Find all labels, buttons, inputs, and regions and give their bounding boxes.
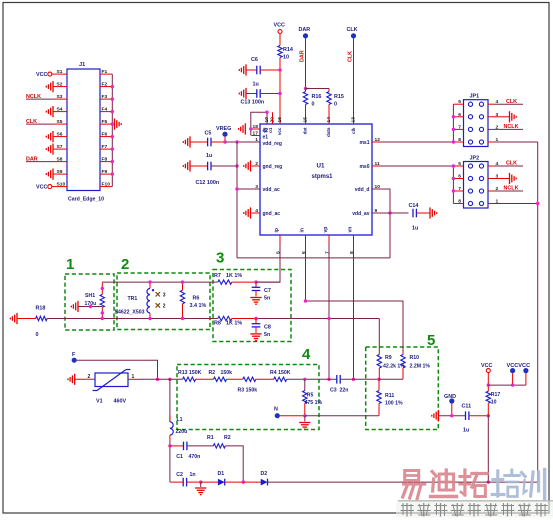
svg-text:1K 1%: 1K 1% <box>226 321 242 327</box>
J1 pin S8 stub <box>53 156 67 162</box>
J1 pin S1 stub <box>53 69 67 75</box>
svg-text:R6: R6 <box>193 296 200 302</box>
junction <box>352 378 355 381</box>
ground at S4 <box>46 106 53 117</box>
diode D2 <box>261 471 268 486</box>
svg-text:F3: F3 <box>102 94 108 100</box>
junction <box>327 317 330 381</box>
junction <box>278 68 281 71</box>
svg-text:6: 6 <box>458 112 461 118</box>
U1 pin 3 <box>252 184 261 190</box>
svg-text:vdd_ac: vdd_ac <box>263 187 280 193</box>
svg-text:470n: 470n <box>189 454 201 460</box>
svg-text:vcc: vcc <box>277 127 282 135</box>
svg-text:3: 3 <box>163 292 166 298</box>
svg-text:R16: R16 <box>312 94 322 100</box>
svg-text:0: 0 <box>312 102 315 108</box>
capacitor C5 <box>190 131 226 160</box>
U1 pin 11 <box>359 161 380 170</box>
svg-text:S4: S4 <box>57 106 63 112</box>
svg-text:R2: R2 <box>209 370 216 376</box>
svg-text:14: 14 <box>326 117 332 123</box>
svg-text:R13 150K: R13 150K <box>178 370 202 376</box>
svg-text:100 1%: 100 1% <box>385 401 403 407</box>
svg-text:10: 10 <box>283 55 289 61</box>
svg-text:6: 6 <box>301 251 307 254</box>
wire vdd_av <box>372 212 409 214</box>
svg-text:2: 2 <box>121 256 129 273</box>
wire vdd_d <box>372 189 390 258</box>
resistor R2 <box>209 370 233 382</box>
dashed box 2 <box>117 256 210 330</box>
junction <box>536 202 539 205</box>
wire pins 19-20 to 18 <box>251 112 273 135</box>
ground at C2 <box>195 482 206 495</box>
svg-text:S7: S7 <box>57 144 63 150</box>
wire divider row <box>158 378 183 380</box>
svg-text:15: 15 <box>303 117 309 123</box>
resistor R13 <box>178 370 202 382</box>
svg-text:in: in <box>300 228 306 232</box>
ground at JP2 pin3 <box>494 173 516 184</box>
junction <box>156 378 172 381</box>
junction <box>111 110 114 113</box>
junction <box>111 147 114 150</box>
svg-text:ms0: ms0 <box>359 164 369 170</box>
svg-text:NCLK: NCLK <box>26 94 41 100</box>
svg-text:0: 0 <box>334 102 337 108</box>
svg-text:F1: F1 <box>102 69 108 75</box>
svg-text:V1: V1 <box>96 399 103 405</box>
power flag VCC right <box>481 363 492 385</box>
junction <box>181 280 184 320</box>
U1 pin 20 <box>270 115 276 124</box>
JP2 pin circles row 3 <box>468 189 483 193</box>
svg-text:220u: 220u <box>176 429 188 435</box>
svg-text:C14: C14 <box>409 203 419 209</box>
wire F <box>77 360 158 379</box>
wire ms1 <box>381 141 454 143</box>
svg-text:U1: U1 <box>317 163 325 170</box>
junction <box>452 177 455 193</box>
wire R1 to rail <box>225 446 243 482</box>
junction <box>377 378 380 381</box>
svg-text:ms1: ms1 <box>359 140 369 146</box>
svg-text:R14: R14 <box>283 47 293 53</box>
wire right bus down <box>537 142 539 482</box>
J1 pin F8 stub <box>100 156 112 162</box>
svg-text:ip: ip <box>274 228 280 232</box>
svg-text:F7: F7 <box>102 144 108 150</box>
ground at pin 2 <box>244 160 251 171</box>
J1 pin S4 stub <box>53 106 67 112</box>
junction <box>511 383 514 386</box>
JP2 right pin 2 <box>488 186 499 192</box>
svg-text:vdd_reg: vdd_reg <box>263 141 282 147</box>
junction <box>249 111 269 131</box>
svg-text:vn: vn <box>348 227 354 233</box>
svg-text:17: 17 <box>253 130 259 136</box>
svg-text:F4: F4 <box>102 106 108 112</box>
svg-text:13: 13 <box>351 117 357 123</box>
svg-text:gnd_reg: gnd_reg <box>263 164 283 170</box>
U1 pin 7 <box>323 227 330 254</box>
J1 pin F6 stub <box>100 131 112 137</box>
ground at S2 <box>46 81 53 92</box>
ground tap at SH1 <box>71 301 102 312</box>
U1 pin 16 <box>277 115 283 124</box>
wire ms0 <box>381 165 454 167</box>
J1 pin F3 stub <box>100 94 112 100</box>
junction <box>235 187 238 190</box>
U1 pin 5 <box>274 228 281 254</box>
svg-text:S5: S5 <box>57 119 63 125</box>
J1 pin S2 stub <box>53 81 67 87</box>
svg-text:F: F <box>72 352 76 358</box>
svg-text:Card_Edge_10: Card_Edge_10 <box>68 197 104 203</box>
svg-text:C1: C1 <box>176 454 183 460</box>
svg-text:4: 4 <box>255 208 258 214</box>
wire <box>279 34 281 46</box>
ground at C12 <box>183 160 190 171</box>
svg-text:3.4 1%: 3.4 1% <box>190 303 207 309</box>
JP2 right pin 4 <box>488 161 499 167</box>
resistor R17 <box>486 385 500 416</box>
svg-text:S3: S3 <box>57 94 63 100</box>
JP1 right pin 4 <box>488 99 499 105</box>
resistor R3 <box>238 377 258 393</box>
svg-text:NCLK: NCLK <box>504 186 519 192</box>
svg-text:1: 1 <box>66 256 74 273</box>
JP1 left bus <box>452 104 454 142</box>
dashed box 4 <box>177 346 319 430</box>
junction <box>254 317 257 320</box>
wire gnd branch down <box>487 416 489 482</box>
junction <box>168 444 171 447</box>
junction <box>487 414 490 417</box>
junction <box>111 85 114 88</box>
resistor R4 <box>270 370 291 382</box>
resistor R1 <box>207 435 231 448</box>
J1 pin F7 stub <box>100 144 112 150</box>
wire top rail <box>102 281 218 283</box>
JP2 left pin 6 <box>453 174 463 180</box>
J1 right bus wire <box>111 74 113 187</box>
junction <box>278 92 281 95</box>
resistor R10 <box>401 352 431 380</box>
svg-text:R10: R10 <box>410 355 420 361</box>
J1 pin F1 stub <box>100 69 112 75</box>
wire <box>243 481 261 483</box>
wire vreg rail <box>236 142 238 258</box>
wire <box>225 481 244 483</box>
svg-text:VCC: VCC <box>36 72 47 78</box>
JP2 left pin 8 <box>453 199 463 205</box>
junction <box>452 115 455 131</box>
JP2 right pin 3 <box>488 174 499 180</box>
junction <box>111 172 114 175</box>
svg-text:R3 150k: R3 150k <box>238 388 258 394</box>
resistor R9 <box>377 352 405 380</box>
wire <box>256 281 280 283</box>
svg-text:8: 8 <box>458 137 461 143</box>
capacitor C13 <box>241 89 281 105</box>
svg-text:sd: sd <box>263 127 268 133</box>
svg-text:DAR: DAR <box>300 50 306 62</box>
svg-text:22n: 22n <box>340 388 349 394</box>
svg-text:VCC: VCC <box>481 363 492 369</box>
svg-text:S6: S6 <box>57 131 63 137</box>
JP1 left pin 8 <box>453 137 463 143</box>
svg-text:N: N <box>274 407 278 413</box>
svg-text:data: data <box>326 127 331 137</box>
svg-text:18: 18 <box>253 124 259 130</box>
svg-text:150k: 150k <box>221 370 233 376</box>
wire DAR vertical <box>300 38 306 88</box>
junction <box>111 122 114 125</box>
JP1 left pin 5 <box>453 99 463 105</box>
resistor R11 <box>377 379 403 415</box>
resistor R6 <box>180 282 206 318</box>
junction <box>199 480 202 483</box>
net label CLK at JP2 <box>494 161 523 167</box>
junction <box>303 378 306 381</box>
J1 pin S3 stub <box>53 94 67 100</box>
connector J1 body <box>67 62 100 191</box>
capacitor C11 <box>462 404 489 434</box>
svg-text:1: 1 <box>132 374 135 380</box>
svg-text:2: 2 <box>88 374 91 380</box>
diode D1 <box>218 471 225 486</box>
svg-text:4: 4 <box>302 346 311 363</box>
junction <box>303 414 306 417</box>
svg-text:1u: 1u <box>253 82 259 88</box>
svg-text:F8: F8 <box>102 156 108 162</box>
ground at F5 <box>115 119 122 130</box>
svg-text:1u: 1u <box>206 153 212 159</box>
svg-text:L1: L1 <box>177 417 183 423</box>
JP2 left bus <box>452 166 454 204</box>
JP2 pin circles row 2 <box>468 176 483 180</box>
svg-text:VCC: VCC <box>36 185 47 191</box>
svg-text:8: 8 <box>349 251 355 254</box>
junction <box>111 97 114 100</box>
wire <box>226 141 260 143</box>
svg-text:D1: D1 <box>218 471 225 477</box>
svg-text:7: 7 <box>325 251 331 254</box>
ground at S7 <box>46 144 53 155</box>
J1 pin S7 stub <box>53 144 67 150</box>
junction <box>111 135 114 138</box>
J1 pin F4 stub <box>100 106 112 112</box>
watermark big text <box>403 470 545 499</box>
junction <box>450 414 453 417</box>
svg-text:6: 6 <box>458 174 461 180</box>
capacitor C7 <box>252 282 271 301</box>
ground at JP1 pin3 <box>494 111 516 122</box>
capacitor C6 <box>246 57 280 88</box>
svg-text:S1: S1 <box>57 69 63 75</box>
svg-text:DAR: DAR <box>299 27 311 33</box>
svg-text:10: 10 <box>491 400 497 406</box>
svg-text:5n: 5n <box>264 332 270 338</box>
junction <box>452 140 455 167</box>
dashed box 3 <box>213 250 291 342</box>
svg-text:R4 150K: R4 150K <box>270 370 291 376</box>
resistor R7 <box>214 273 256 284</box>
svg-text:475 1%: 475 1% <box>305 400 323 406</box>
svg-text:VCC: VCC <box>274 23 285 29</box>
J1 pin S5 stub <box>53 119 67 125</box>
svg-text:R15: R15 <box>334 94 344 100</box>
svg-text:R1: R1 <box>207 435 214 441</box>
net label NCLK at JP2 <box>494 186 523 192</box>
ground at R18 <box>10 313 17 324</box>
svg-text:7: 7 <box>458 186 461 192</box>
resistor R18 <box>17 306 47 339</box>
svg-text:8: 8 <box>458 199 461 205</box>
svg-text:1K 1%: 1K 1% <box>226 273 242 279</box>
node VREG <box>216 126 231 142</box>
JP2 pin circles row 1 <box>468 164 483 168</box>
ground at S6 <box>46 131 53 142</box>
JP1 pin circles row 3 <box>468 127 483 131</box>
wire VCC net vertical <box>279 58 281 125</box>
JP1 right pin 3 <box>488 112 499 118</box>
svg-text:S9: S9 <box>57 169 63 175</box>
svg-text:S8: S8 <box>57 156 63 162</box>
wire CLK vertical <box>348 38 354 124</box>
svg-text:R2: R2 <box>224 435 231 441</box>
svg-text:C6: C6 <box>251 57 258 63</box>
JP1 pin circles row 1 <box>468 102 483 106</box>
junction <box>304 87 307 90</box>
ground at pins 17-18 <box>239 123 246 134</box>
J1 pin F10 stub <box>100 181 112 187</box>
JP2 left pin 5 <box>453 161 463 167</box>
wire left rail <box>169 379 171 422</box>
ground at R5 <box>299 416 310 430</box>
svg-text:0: 0 <box>36 332 39 338</box>
wire vcc rail <box>488 384 526 386</box>
svg-text:vp: vp <box>323 227 329 233</box>
svg-text:1u: 1u <box>463 428 469 434</box>
wire <box>439 415 466 417</box>
wire ip (pin5) <box>256 244 280 282</box>
junction <box>148 280 151 320</box>
junction <box>101 287 104 320</box>
svg-text:16: 16 <box>277 117 283 123</box>
connector JP1 body <box>464 94 489 147</box>
J1 pin F2 stub <box>100 81 112 87</box>
wire <box>227 378 243 380</box>
svg-text:460V: 460V <box>114 399 127 405</box>
svg-text:F2: F2 <box>102 81 108 87</box>
svg-text:gnd_ac: gnd_ac <box>263 211 281 217</box>
junction <box>304 299 307 302</box>
power flag VCC at S10 <box>36 185 53 191</box>
capacitor C8 <box>252 319 271 339</box>
svg-text:3: 3 <box>216 250 224 267</box>
JP1 left pin 7 <box>453 124 463 130</box>
svg-text:R18: R18 <box>36 306 46 312</box>
node DAR <box>299 27 311 38</box>
varistor V1 <box>75 370 158 405</box>
connector JP2 body <box>464 156 489 209</box>
wire R8 rail to R9 <box>378 319 380 352</box>
wire <box>256 378 274 380</box>
wire vp (pin7) <box>328 244 330 379</box>
U1 pin 19 <box>264 115 270 124</box>
svg-text:1n: 1n <box>190 472 196 478</box>
capacitor C2 <box>170 472 201 486</box>
svg-text:C7: C7 <box>264 288 271 294</box>
resistor R15 <box>327 89 344 125</box>
svg-text:S4622_X503: S4622_X503 <box>115 310 145 316</box>
junction <box>235 164 238 167</box>
U1 pin 13 <box>351 115 357 124</box>
resistor R16 <box>303 89 321 125</box>
op-amp U1 body <box>260 124 372 235</box>
U1 pin 8 <box>348 227 355 254</box>
wire <box>287 378 337 380</box>
svg-text:o1: o1 <box>268 127 273 133</box>
watermark band <box>396 501 553 518</box>
JP2 left pin 7 <box>453 186 463 192</box>
U1 pin 15 <box>303 115 309 124</box>
svg-text:stpms1: stpms1 <box>312 174 334 180</box>
svg-text:vdd_d: vdd_d <box>355 187 370 193</box>
svg-text:2.2M 1%: 2.2M 1% <box>410 364 431 370</box>
svg-text:DAR: DAR <box>26 157 38 163</box>
dashed box 1 <box>65 256 114 330</box>
ground at C7 <box>250 298 261 305</box>
wire R10 bottom <box>379 378 403 380</box>
ground at C8 <box>250 334 261 341</box>
capacitor C3 <box>330 375 379 394</box>
power flag VCC top <box>274 23 285 34</box>
svg-text:NCLK: NCLK <box>504 124 519 130</box>
svg-text:R9: R9 <box>385 355 392 361</box>
wire bottom rail left <box>47 318 218 320</box>
svg-text:5: 5 <box>276 251 282 254</box>
JP1 pin circles row 2 <box>468 115 483 119</box>
wire in (pin6) <box>306 244 404 352</box>
svg-text:5: 5 <box>427 332 435 349</box>
label Card_Edge_10 <box>68 197 104 203</box>
U1 pin 9 <box>352 208 380 217</box>
svg-text:C3: C3 <box>330 388 337 394</box>
svg-text:11: 11 <box>375 161 380 167</box>
svg-text:clk: clk <box>351 127 356 134</box>
svg-text:R5: R5 <box>307 393 314 399</box>
svg-text:dat: dat <box>303 127 308 134</box>
svg-text:C13 100n: C13 100n <box>241 100 265 106</box>
wire pin3 <box>237 188 260 190</box>
JP1 right pin 2 <box>488 124 499 130</box>
net label DAR at S8 <box>26 157 53 163</box>
svg-text:5: 5 <box>458 99 461 105</box>
svg-text:C12 100n: C12 100n <box>196 180 220 186</box>
svg-text:7: 7 <box>458 124 461 130</box>
svg-text:CLK: CLK <box>506 161 517 167</box>
U1 pin 18 <box>252 124 261 130</box>
ground at C6 <box>239 64 246 75</box>
svg-text:5: 5 <box>458 161 461 167</box>
svg-text:C5: C5 <box>205 131 212 137</box>
svg-text:R11: R11 <box>385 393 394 399</box>
transformer TR1 <box>115 282 166 318</box>
